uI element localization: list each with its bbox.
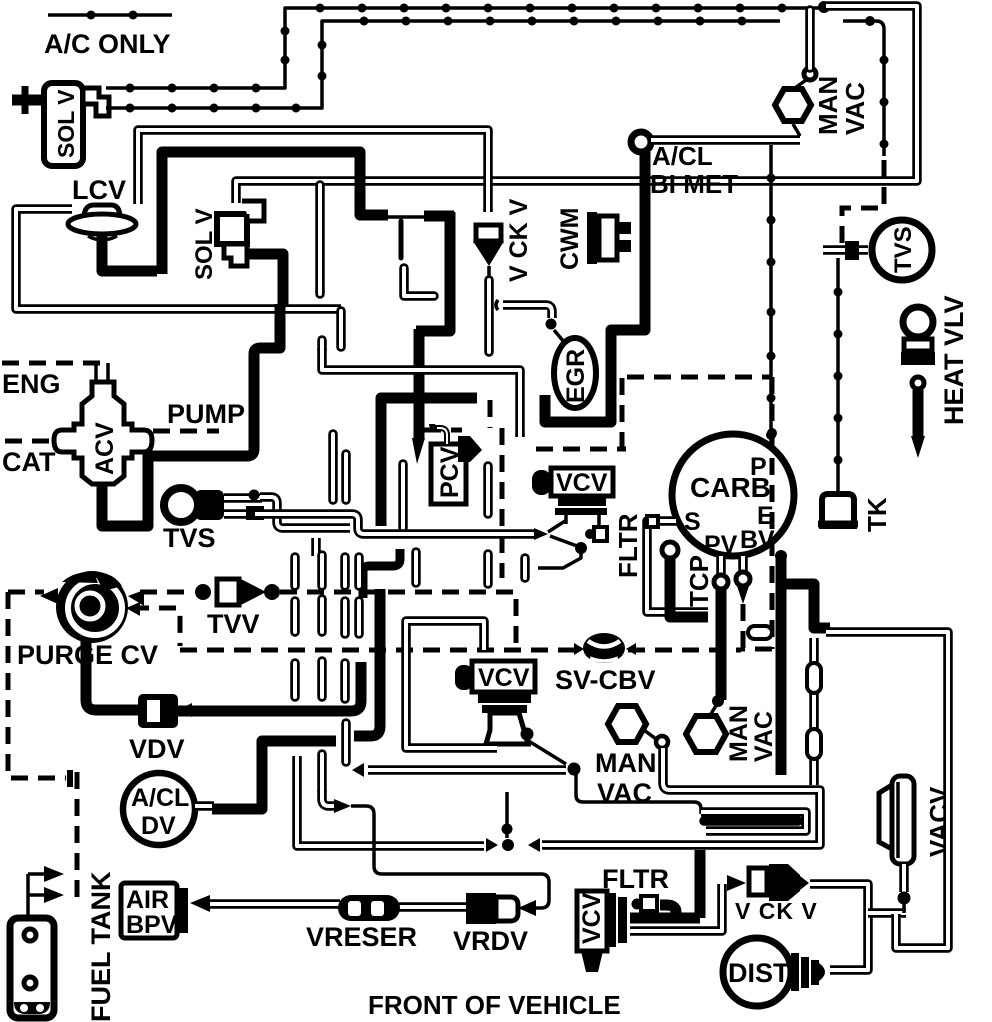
svg-text:CAT: CAT	[2, 447, 56, 477]
hose stub tee of right tube	[315, 185, 325, 294]
hose DIST to VACV riser	[810, 884, 906, 970]
hose hook stub	[404, 268, 434, 296]
wire thick VDV to right and up	[178, 662, 361, 711]
svg-text:VCV: VCV	[478, 664, 530, 692]
svg-text:CWM: CWM	[556, 208, 584, 270]
svg-text:ENG: ENG	[2, 369, 61, 399]
svg-text:SOL V: SOL V	[191, 208, 218, 280]
svg-text:A/CL: A/CL	[131, 784, 189, 812]
valve MAN VAC hexagon 3	[595, 706, 668, 808]
reservoir VRESER	[306, 895, 417, 952]
check valve V CK V (top)	[473, 198, 533, 282]
svg-text:AIR: AIR	[126, 886, 169, 914]
pipe TCP	[662, 542, 714, 617]
wire thick purge down to VDV	[86, 640, 140, 710]
label PUMP + dashed	[153, 429, 219, 434]
valve TVV	[195, 578, 280, 639]
muffler CWM	[556, 208, 631, 270]
pump PURGE CV	[17, 571, 158, 670]
wire thick stub column x450	[416, 212, 450, 331]
svg-text:FLTR: FLTR	[613, 513, 643, 578]
valve VCV 1	[532, 468, 613, 526]
connector slots firewall group	[295, 434, 488, 699]
node A/CL BI MET ring	[631, 132, 651, 152]
wire dashed TVV to right + corner down	[280, 592, 516, 646]
wire thick Z link	[363, 549, 400, 598]
wire bead riser on junction	[505, 792, 509, 838]
carburetor CARB circle	[672, 434, 794, 559]
wire dashed elbow L2 to TVS	[842, 160, 884, 250]
valve HEAT VLV	[901, 295, 969, 458]
valve MAN VAC hexagon 2 (under PV)	[686, 704, 778, 762]
hose pin c3 down to junction	[341, 723, 351, 762]
svg-text:SOL V: SOL V	[53, 89, 79, 158]
solenoid SOL V (top left)	[12, 83, 109, 166]
connector slot c4b	[520, 558, 530, 578]
svg-text:TK: TK	[862, 497, 892, 532]
wire dotted line L2 (SOL V lower to right)	[106, 16, 889, 156]
svg-text:ACV: ACV	[91, 422, 119, 475]
svg-text:VAC: VAC	[750, 711, 778, 762]
svg-text:VRESER: VRESER	[306, 922, 417, 952]
hose pair ring to MAN VAC hexagon	[651, 124, 800, 140]
label CAT + dashed	[5, 439, 53, 444]
valve VCV 3 (bottom)	[577, 891, 627, 972]
hose LCV top pair to V CK V	[138, 130, 488, 212]
port TK	[818, 494, 892, 532]
connector FLTR square bottom	[632, 896, 658, 911]
wire beaded TVS down to TK	[834, 258, 843, 492]
svg-text:TCP: TCP	[684, 555, 714, 607]
hose CARB S port to FLTR loop	[647, 521, 708, 612]
wire dotted line L1 (SOL V to top right)	[106, 1, 830, 93]
wire thick bead to nested block	[576, 774, 701, 814]
port PV line	[712, 556, 728, 707]
regulator VRDV	[453, 893, 536, 956]
svg-text:SV-CBV: SV-CBV	[555, 665, 656, 695]
valve ACV assembly	[54, 363, 152, 484]
hose TVS2 lower branch jog	[255, 514, 534, 534]
svg-text:PUMP: PUMP	[167, 399, 245, 429]
wire beaded MAN VAC to CARB P	[766, 145, 776, 443]
wire thick from SOL V 2 to long tube	[247, 254, 283, 306]
svg-text:V CK V: V CK V	[735, 898, 818, 924]
hose VRESER line	[210, 904, 466, 907]
wire thick LCV stem down-right	[102, 232, 157, 271]
svg-text:A/CL: A/CL	[652, 141, 713, 171]
valve VDV	[129, 694, 185, 764]
svg-text:P: P	[750, 453, 767, 481]
port BV line	[736, 556, 750, 648]
svg-text:BPV: BPV	[126, 911, 178, 939]
svg-text:TVS: TVS	[163, 523, 216, 553]
wire dashed fuel tank riser	[75, 772, 80, 905]
hose VRDV chain (c2 down to VRDV)	[322, 754, 549, 908]
svg-text:VCV: VCV	[556, 469, 608, 497]
svg-text:MAN: MAN	[595, 748, 657, 778]
wire thick A/CL DV up loop	[212, 741, 336, 809]
svg-text:A/C ONLY: A/C ONLY	[44, 29, 171, 59]
hose right-side tube (dotted junction down to SOL V 2)	[236, 6, 917, 203]
valve SV-CBV	[555, 633, 656, 695]
hose stub to slot c2	[311, 538, 321, 556]
wire thick ACV loop to top	[102, 304, 280, 526]
hose TVS2 upper branch to slots	[260, 497, 350, 528]
hose nested block U1 (outer)	[297, 748, 820, 852]
svg-text:TVV: TVV	[207, 609, 260, 639]
svg-text:BI MET: BI MET	[650, 169, 738, 199]
svg-text:VDV: VDV	[129, 734, 185, 764]
svg-text:PV: PV	[704, 531, 738, 559]
wire thick big loop (up over to V CK V column)	[162, 152, 388, 274]
valve EGR	[496, 300, 596, 408]
hose nested block U2 (inner)	[701, 812, 806, 831]
valve VCV 2 with loop	[455, 661, 566, 764]
valve VACV	[879, 776, 954, 864]
svg-text:EGR: EGR	[562, 349, 590, 403]
dashed box around carb circuit	[424, 377, 777, 649]
connector FLTR square	[585, 527, 607, 541]
wire dashed purge to TVV	[8, 590, 44, 595]
svg-text:LCV: LCV	[72, 175, 126, 205]
wire VACV down to bead	[898, 864, 911, 913]
hose V CK V down pair	[404, 268, 489, 352]
svg-text:DV: DV	[141, 812, 176, 840]
wire thick A/CL BI MET down around EGR	[545, 152, 645, 422]
hose LCV left tube to long horizontal	[16, 209, 341, 347]
svg-text:FUEL TANK: FUEL TANK	[86, 871, 116, 1022]
valve LCV	[68, 175, 136, 240]
valve PCV	[354, 398, 482, 736]
svg-text:DIST: DIST	[728, 958, 790, 988]
svg-text:HEAT VLV: HEAT VLV	[939, 295, 969, 425]
diaphragm A/CL DV	[123, 773, 214, 845]
node CARB E bead	[775, 550, 787, 562]
valve MAN VAC hexagon (top right)	[775, 10, 870, 135]
sensor TVS (top right)	[823, 220, 932, 280]
svg-text:V CK V: V CK V	[505, 198, 533, 282]
hose VCV2 left loop	[406, 621, 497, 748]
check valve V CK V 2	[727, 864, 818, 924]
distributor DIST	[723, 938, 825, 1006]
svg-text:VAC: VAC	[840, 82, 870, 135]
svg-text:MAN: MAN	[725, 705, 753, 762]
svg-text:FLTR: FLTR	[602, 864, 669, 894]
valve AIR BPV	[121, 883, 210, 939]
solenoid SOL V 2 (center)	[191, 201, 264, 280]
svg-text:VRDV: VRDV	[453, 926, 528, 956]
svg-text:S: S	[684, 508, 701, 536]
wire thick stub inside block	[704, 816, 798, 826]
wire links to VCV 1	[548, 521, 577, 546]
wire dashed left boundary	[8, 592, 66, 778]
wire thin link + pin	[388, 215, 426, 219]
hose CARB E staircase thick	[776, 558, 787, 775]
connector FLTR small square on S line	[647, 516, 658, 527]
hose right loop R1	[748, 626, 948, 948]
svg-text:MAN: MAN	[813, 76, 843, 135]
svg-text:FRONT OF VEHICLE: FRONT OF VEHICLE	[368, 990, 621, 1020]
legend A/C ONLY line	[48, 11, 172, 20]
tank FUEL TANK	[10, 866, 116, 1022]
hose capsule line	[807, 638, 821, 785]
svg-text:TVS: TVS	[890, 226, 917, 273]
label ENG + dashed	[2, 361, 103, 366]
svg-text:VCV: VCV	[578, 892, 606, 944]
wire dashed purge lower to SV-CBV	[132, 608, 180, 646]
hose VCV3 to block	[630, 850, 700, 918]
hose staircase P2 to PCV box	[322, 340, 520, 437]
hose taper end of long line	[534, 528, 548, 540]
hose long pair to bead (y768)	[352, 763, 581, 778]
sensor TVS 2 (mid left)	[163, 488, 264, 553]
